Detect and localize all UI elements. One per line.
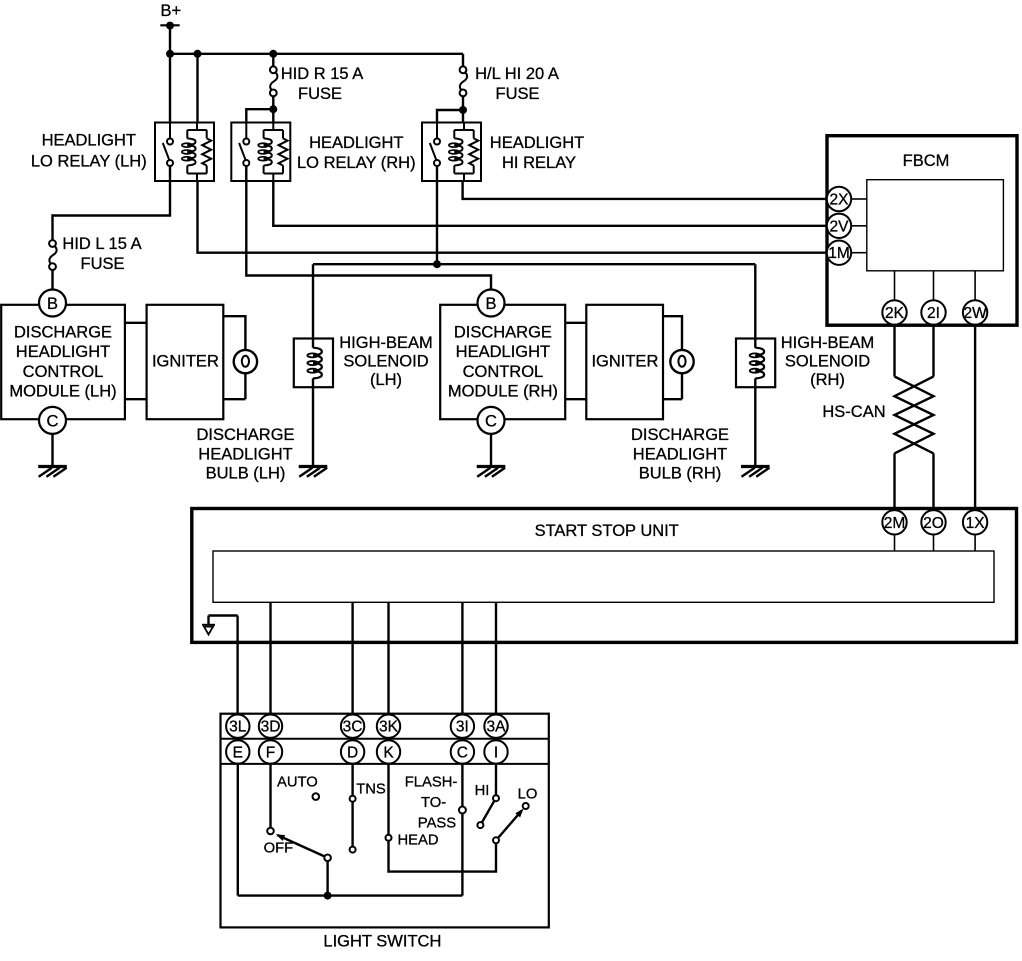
wire B+ to bus (169, 26, 171, 54)
svg-text:LO RELAY (RH): LO RELAY (RH) (297, 154, 416, 172)
svg-text:DISCHARGE: DISCHARGE (631, 426, 729, 444)
svg-text:2M: 2M (884, 515, 906, 532)
svg-text:IGNITER: IGNITER (591, 353, 658, 371)
relay K1 HEADLIGHT LO RELAY (LH) (155, 123, 214, 182)
wire SSU to switch 3D (269, 602, 271, 714)
svg-text:HID L 15 A: HID L 15 A (62, 235, 141, 253)
pin FBCM 2K (882, 271, 906, 325)
label bulb LH (196, 426, 294, 483)
svg-text:I: I (494, 744, 498, 761)
svg-text:PASS: PASS (418, 816, 457, 832)
svg-text:HEADLIGHT: HEADLIGHT (16, 343, 110, 361)
svg-text:CONTROL: CONTROL (23, 363, 104, 381)
wire bus to LH relay switch (169, 54, 171, 123)
lamp DISCHARGE HEADLIGHT BULB (RH) (670, 350, 693, 373)
wire switch E down (237, 764, 239, 896)
contact HI lower (477, 822, 483, 828)
pin module LH B (39, 290, 66, 317)
wire twist to SSU 2O (932, 453, 934, 510)
wire solenoid LH to ground (312, 378, 314, 466)
label bulb RH (631, 426, 729, 483)
label relay K2 (297, 134, 416, 172)
svg-text:1X: 1X (966, 515, 986, 532)
switch arm LO with arrow (498, 809, 524, 839)
svg-text:SOLENOID: SOLENOID (343, 353, 428, 371)
wire SSU to switch 3K (387, 602, 389, 714)
pin SSU 2O (921, 510, 945, 551)
wire FBCM 2K down (893, 325, 895, 377)
svg-text:CONTROL: CONTROL (463, 363, 544, 381)
svg-text:B: B (47, 295, 58, 313)
pin light switch F (259, 740, 282, 763)
svg-text:AUTO: AUTO (277, 775, 318, 791)
svg-text:DISCHARGE: DISCHARGE (454, 324, 552, 342)
wire fuse to RH relay switch (246, 109, 273, 122)
ground module RH (477, 467, 506, 477)
svg-text:HEAD: HEAD (398, 833, 439, 849)
svg-text:DISCHARGE: DISCHARGE (196, 426, 294, 444)
pin FBCM 1M (827, 241, 867, 265)
svg-text:SOLENOID: SOLENOID (785, 353, 870, 371)
battery feed B+ terminal (160, 2, 181, 29)
pin FBCM 2W (963, 271, 987, 325)
contact LO common (493, 837, 499, 843)
label fuse HID R 15 A (281, 65, 364, 103)
svg-text:3I: 3I (456, 719, 469, 736)
svg-text:FLASH-: FLASH- (405, 775, 458, 791)
wire module RH to igniter RH upper (565, 322, 586, 324)
wire switch K down (387, 764, 389, 835)
ground module LH (38, 467, 67, 477)
contact LO (523, 803, 529, 809)
wire SSU to switch 3A (495, 602, 497, 714)
fuse HID R 15 A (270, 54, 278, 109)
label relay K1 (31, 132, 147, 171)
node switch common junction (324, 892, 332, 900)
svg-text:H/L HI 20 A: H/L HI 20 A (475, 65, 559, 83)
label solenoid RH (781, 334, 875, 389)
svg-text:D: D (347, 744, 358, 761)
switch arm HI (482, 801, 494, 823)
svg-text:HIGH-BEAM: HIGH-BEAM (781, 334, 875, 352)
svg-text:HEADLIGHT: HEADLIGHT (490, 134, 584, 152)
lamp DISCHARGE HEADLIGHT BULB (LH) (234, 350, 257, 373)
pin FBCM 2I (921, 271, 945, 325)
relay K3 HEADLIGHT HI RELAY (422, 123, 481, 182)
pin FBCM 2V (827, 214, 867, 238)
pin light switch I (484, 740, 507, 763)
wire twist to SSU 2M (893, 453, 895, 510)
contact HEAD (386, 835, 392, 841)
relay K2 HEADLIGHT LO RELAY (RH) (231, 123, 290, 182)
pin module LH C (39, 407, 66, 434)
solenoid HIGH-BEAM SOLENOID (RH) box (736, 339, 775, 388)
pin light switch 3D (259, 715, 282, 738)
wire switch bottom common (238, 894, 463, 896)
svg-text:START STOP UNIT: START STOP UNIT (535, 522, 679, 540)
svg-text:LO: LO (518, 787, 538, 803)
svg-text:HEADLIGHT: HEADLIGHT (198, 445, 292, 463)
label LIGHT SWITCH (323, 933, 441, 951)
svg-text:BULB (LH): BULB (LH) (206, 465, 286, 483)
svg-text:K: K (383, 744, 394, 761)
svg-text:FUSE: FUSE (80, 255, 124, 273)
module DISCHARGE HEADLIGHT CONTROL MODULE (RH) (440, 305, 565, 419)
svg-text:2K: 2K (885, 305, 905, 322)
label OFF (264, 841, 294, 857)
svg-text:DISCHARGE: DISCHARGE (14, 324, 112, 342)
svg-text:HS-CAN: HS-CAN (822, 403, 885, 421)
node HID R fuse output (269, 105, 277, 113)
svg-text:LIGHT SWITCH: LIGHT SWITCH (323, 933, 441, 951)
wire SSU to switch 3I (461, 602, 463, 714)
switch TNS contacts (350, 796, 356, 853)
svg-text:MODULE (LH): MODULE (LH) (9, 383, 116, 401)
pin light switch 3I (451, 715, 474, 738)
pin light switch 3K (377, 715, 400, 738)
svg-text:FUSE: FUSE (495, 85, 539, 103)
pin light switch C (451, 740, 474, 763)
igniter LH box (147, 305, 224, 419)
contact AUTO (313, 793, 320, 800)
svg-text:1M: 1M (828, 245, 850, 262)
wire SSU to switch 3C (351, 602, 353, 714)
fuse HID L 15 A (49, 240, 57, 289)
ground solenoid RH (741, 467, 770, 477)
svg-text:3L: 3L (229, 719, 247, 736)
label relay K3 (490, 134, 584, 172)
svg-text:HEADLIGHT: HEADLIGHT (633, 445, 727, 463)
label solenoid LH (339, 334, 433, 389)
wire power bus (170, 53, 463, 55)
wire module LH C to ground (51, 434, 53, 467)
wire bus to LH relay coil (196, 54, 198, 123)
label AUTO (277, 775, 318, 791)
module DISCHARGE HEADLIGHT CONTROL MODULE (LH) (1, 305, 125, 419)
svg-text:HI RELAY: HI RELAY (502, 154, 576, 172)
solenoid HIGH-BEAM SOLENOID (LH) box (294, 339, 333, 388)
svg-text:2X: 2X (830, 192, 850, 209)
label FLASH-TO-PASS (405, 775, 458, 832)
wire switch I down (495, 764, 497, 795)
wire switch C down (461, 764, 463, 896)
rotary switch arm OFF (276, 834, 331, 895)
solenoid LH coil (307, 348, 321, 379)
wire LH relay switch to HID L fuse (53, 166, 171, 240)
svg-text:C: C (457, 744, 468, 761)
svg-text:HEADLIGHT: HEADLIGHT (42, 132, 136, 150)
svg-text:IGNITER: IGNITER (152, 353, 219, 371)
svg-text:FBCM: FBCM (903, 152, 950, 170)
svg-text:MODULE (RH): MODULE (RH) (448, 383, 558, 401)
wire switch F down (269, 764, 271, 828)
contact OFF (267, 828, 274, 835)
wire igniter LH to bulb LH (223, 316, 245, 399)
node high-beam feed junction (433, 260, 441, 268)
svg-text:HID R 15 A: HID R 15 A (281, 65, 364, 83)
pin light switch 3L (226, 715, 249, 738)
wire module LH to igniter LH upper (125, 322, 147, 324)
pin light switch K (377, 740, 400, 763)
START STOP UNIT inner block (213, 551, 994, 602)
svg-text:F: F (266, 744, 275, 761)
wire fuse to RH relay coil (272, 109, 274, 122)
label TNS (356, 782, 386, 798)
wire feed to LH solenoid (312, 264, 314, 348)
wire LH relay coil to FBCM 1M (198, 181, 827, 253)
contact flash-to-pass on C wire (459, 807, 466, 814)
wire module RH C to ground (490, 434, 492, 467)
wire fuse to HI relay switch (437, 110, 463, 123)
ground solenoid LH (299, 467, 328, 477)
wire module LH to igniter LH lower (125, 398, 147, 400)
svg-text:3A: 3A (487, 719, 507, 736)
pin module RH B (478, 290, 505, 317)
module START STOP UNIT box (192, 509, 1017, 643)
wire SSU ground to switch 3L (236, 616, 238, 715)
wire solenoid RH to ground (754, 378, 756, 466)
svg-text:HI: HI (475, 783, 490, 799)
pin module RH C (478, 407, 505, 434)
svg-text:3D: 3D (261, 719, 281, 736)
svg-text:OFF: OFF (264, 841, 294, 857)
wire feed to RH solenoid (754, 264, 756, 348)
pin light switch D (341, 740, 364, 763)
fuse H/L HI 20 A (460, 54, 468, 110)
svg-text:TNS: TNS (356, 782, 386, 798)
svg-text:C: C (485, 412, 497, 430)
node H/L HI fuse output (459, 106, 467, 114)
svg-text:FUSE: FUSE (298, 85, 342, 103)
node bus junction B (194, 50, 202, 58)
igniter RH box (586, 305, 663, 419)
wire HI relay switch to high-beam feed (436, 166, 438, 264)
wire HI relay coil to FBCM 2X (463, 181, 827, 199)
svg-text:E: E (233, 744, 243, 761)
label HI (475, 783, 490, 799)
svg-text:2O: 2O (923, 515, 944, 532)
wire HEAD to LO common (389, 841, 497, 872)
node bus junction C (269, 50, 277, 58)
wire FBCM 2W to SSU 1X (974, 325, 976, 511)
svg-text:(LH): (LH) (370, 371, 402, 389)
svg-text:LO RELAY (LH): LO RELAY (LH) (31, 153, 147, 171)
svg-text:2W: 2W (963, 305, 987, 322)
node bus junction A (166, 50, 174, 58)
pin SSU 2M (882, 510, 906, 551)
label HS-CAN (822, 403, 885, 421)
svg-text:B+: B+ (161, 2, 182, 20)
pin light switch 3C (341, 715, 364, 738)
pin light switch E (226, 740, 249, 763)
svg-text:HEADLIGHT: HEADLIGHT (456, 343, 550, 361)
solenoid RH coil (750, 348, 764, 379)
wire RH relay coil to FBCM 2V (273, 181, 827, 226)
wire switch D down (351, 764, 353, 796)
wire FBCM 2I down (932, 325, 934, 377)
pin light switch 3A (484, 715, 507, 738)
chassis ground arrow in SSU (202, 616, 238, 635)
FBCM inner block (867, 180, 1004, 271)
wire igniter RH to bulb RH (663, 316, 682, 399)
light switch connector strip lines (221, 739, 549, 764)
svg-text:3K: 3K (379, 719, 399, 736)
svg-text:(RH): (RH) (810, 371, 845, 389)
wire fuse to HI relay coil (462, 110, 464, 123)
svg-text:B: B (485, 295, 496, 313)
twisted pair HS-CAN (895, 377, 934, 454)
svg-text:HEADLIGHT: HEADLIGHT (309, 134, 403, 152)
pin FBCM 2X (827, 187, 867, 211)
wire high-beam feed (313, 263, 755, 265)
svg-text:2V: 2V (830, 218, 850, 235)
label fuse H/L HI 20 A (475, 65, 559, 103)
label fuse HID L 15 A (62, 235, 141, 273)
wire module RH to igniter RH lower (565, 398, 586, 400)
label HEAD (398, 833, 439, 849)
svg-text:HIGH-BEAM: HIGH-BEAM (339, 334, 433, 352)
label LO (518, 787, 538, 803)
svg-text:2I: 2I (927, 305, 940, 322)
svg-text:3C: 3C (343, 719, 363, 736)
pin SSU 1X (963, 510, 987, 551)
contact HI upper (493, 795, 499, 801)
wire RH relay switch to module RH pin B (246, 166, 491, 290)
module FBCM box (827, 136, 1017, 326)
light switch box (221, 714, 549, 928)
svg-text:TO-: TO- (421, 795, 446, 811)
svg-text:BULB (RH): BULB (RH) (639, 465, 722, 483)
svg-text:C: C (47, 412, 59, 430)
